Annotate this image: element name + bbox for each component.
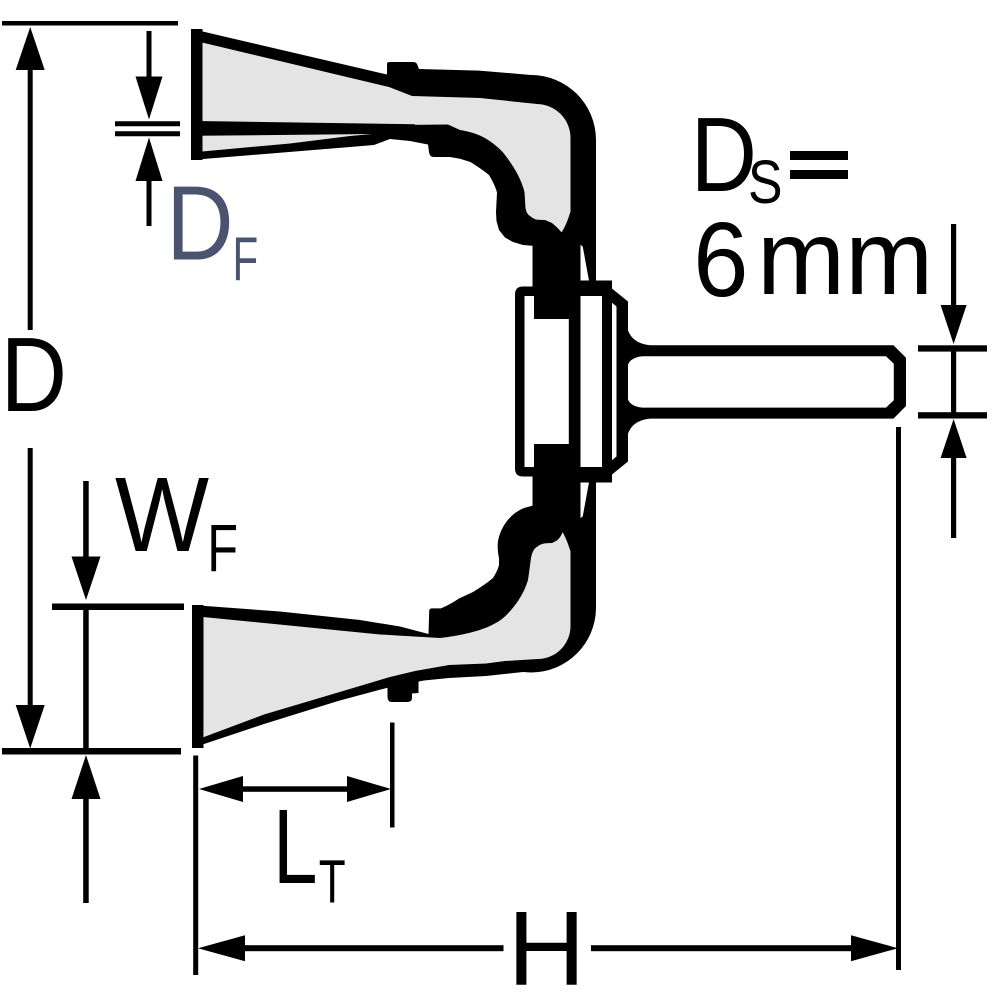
svg-text:6: 6 [693,201,748,319]
svg-text:D: D [166,165,233,283]
svg-text:H: H [508,890,586,1000]
svg-text:D: D [1,316,67,434]
svg-text:F: F [207,511,238,586]
svg-text:mm: mm [757,199,933,317]
svg-text:T: T [319,848,346,916]
svg-text:F: F [233,225,259,294]
svg-text:W: W [115,456,209,574]
svg-text:L: L [273,788,318,906]
